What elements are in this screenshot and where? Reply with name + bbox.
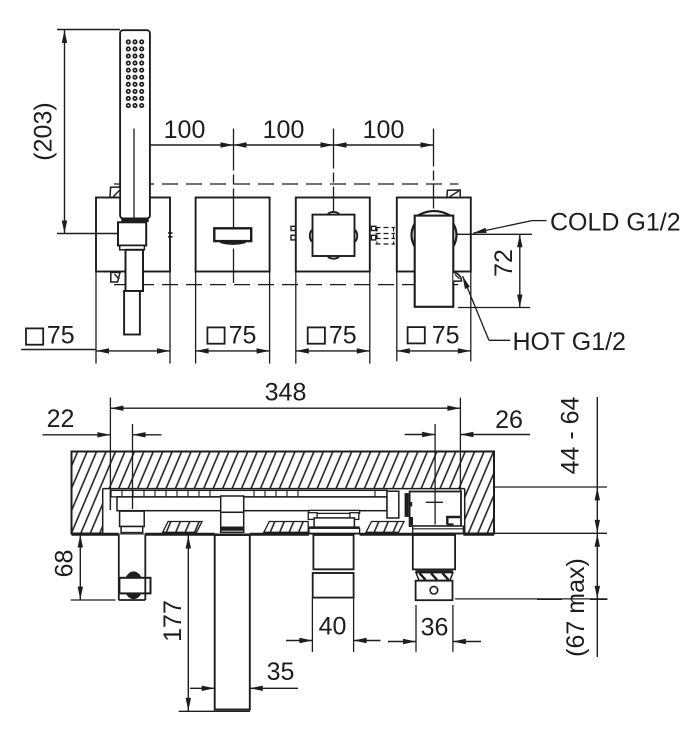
svg-text:75: 75 (432, 322, 460, 350)
svg-text:35: 35 (267, 658, 295, 686)
svg-text:72: 72 (490, 249, 518, 277)
svg-text:22: 22 (47, 405, 75, 433)
svg-text:100: 100 (164, 116, 206, 144)
svg-text:348: 348 (265, 379, 307, 407)
svg-text:40: 40 (319, 613, 347, 641)
svg-text:100: 100 (263, 116, 305, 144)
svg-text:100: 100 (363, 116, 405, 144)
svg-text:75: 75 (329, 322, 357, 350)
svg-text:(203): (203) (30, 102, 58, 160)
svg-text:75: 75 (47, 322, 75, 350)
svg-text:26: 26 (495, 406, 523, 434)
svg-text:36: 36 (421, 614, 449, 642)
svg-text:(67 max): (67 max) (562, 558, 590, 657)
svg-text:75: 75 (229, 322, 257, 350)
svg-text:HOT G1/2: HOT G1/2 (513, 328, 626, 356)
svg-text:COLD G1/2: COLD G1/2 (550, 209, 681, 237)
svg-text:68: 68 (51, 550, 79, 578)
svg-text:44 - 64: 44 - 64 (557, 396, 585, 474)
svg-text:177: 177 (159, 600, 187, 642)
